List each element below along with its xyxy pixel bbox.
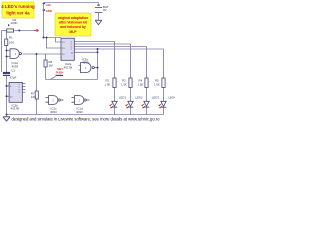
svg-text:LED1: LED1 [119, 96, 126, 100]
svg-text:4093: 4093 [82, 60, 89, 64]
svg-text:C1: C1 [11, 69, 15, 73]
svg-text:10K: 10K [9, 41, 14, 45]
svg-text:100K: 100K [11, 21, 18, 25]
svg-text:1.5K: 1.5K [154, 83, 160, 87]
svg-text:designed and simulate in Livew: designed and simulate in Livewire softwa… [12, 117, 161, 122]
svg-text:1.5K: 1.5K [121, 83, 127, 87]
svg-text:MLP: MLP [69, 30, 77, 34]
svg-text:4093: 4093 [76, 110, 83, 114]
svg-text:1.5K: 1.5K [105, 83, 111, 87]
svg-text:after Velleman kit: after Velleman kit [59, 21, 88, 25]
svg-text:LED3: LED3 [152, 96, 159, 100]
svg-text:light ver 4a: light ver 4a [6, 11, 30, 16]
svg-text:1.5K: 1.5K [138, 83, 144, 87]
svg-text:PUSH: PUSH [56, 71, 64, 75]
svg-text:LED4: LED4 [169, 96, 176, 100]
svg-text:original adaptation: original adaptation [58, 16, 88, 20]
svg-text:LED2: LED2 [136, 96, 143, 100]
svg-text:4093: 4093 [50, 110, 57, 114]
svg-text:4 LED's running: 4 LED's running [1, 4, 35, 9]
svg-text:10K: 10K [31, 95, 36, 99]
svg-text:4017B: 4017B [64, 66, 73, 70]
svg-text:47µF: 47µF [10, 76, 17, 80]
svg-text:9V: 9V [103, 8, 107, 12]
svg-text:1M: 1M [49, 64, 54, 68]
svg-text:GND: GND [46, 9, 52, 13]
svg-text:+9V: +9V [46, 3, 51, 7]
svg-text:and followed by: and followed by [60, 25, 86, 29]
svg-text:4017B: 4017B [11, 106, 20, 110]
svg-text:R1: R1 [9, 36, 13, 40]
